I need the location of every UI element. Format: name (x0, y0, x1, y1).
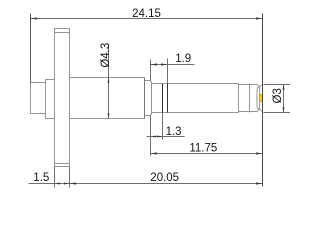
dim 24.15 left extension line (30, 14, 32, 83)
center contact (yellow) (260, 95, 263, 102)
phi3 dim line (283, 85, 285, 113)
arrows (31, 17, 285, 184)
svg-text:1.9: 1.9 (175, 53, 191, 65)
dim 1.3 right extension (groove bottom) (162, 113, 164, 140)
shaft step line 2 (249, 84, 251, 113)
neck top line (239, 84, 258, 86)
dim 24.15 line (31, 18, 263, 20)
dim 1.9 left extension (ring top) (150, 60, 152, 81)
dim 1.9 line (151, 64, 195, 66)
svg-text:11.75: 11.75 (189, 143, 217, 155)
arrow phi3 top (283, 85, 285, 90)
body cylinder rect (70, 78, 145, 119)
arrow 1.9 right (161, 63, 168, 65)
arrow 1.9 left (151, 63, 158, 65)
body right edge (144, 78, 146, 119)
dim 1.3 left extension (ring bottom) (150, 116, 152, 157)
shaft top line (152, 83, 239, 85)
arrow 1.3 right (157, 136, 163, 138)
ext flange right bottom (69, 167, 71, 188)
arrow 1.5 left (55, 183, 61, 185)
mid step section rect (46, 80, 55, 119)
groove line 1 (162, 84, 164, 113)
end cap chamfer cross bottom b (257, 108, 262, 111)
svg-text:1.3: 1.3 (166, 126, 182, 138)
arrow 1.3 left (151, 136, 157, 138)
arrow phi4.3 bottom (108, 113, 110, 118)
arrow 1.5 right (64, 183, 70, 185)
dim 1.3 line (147, 136, 185, 138)
groove line 2 (167, 84, 169, 113)
step ring (145, 81, 152, 116)
rear solder section rect (31, 83, 46, 114)
arrow 20.05 left (70, 182, 77, 184)
svg-text:20.05: 20.05 (150, 172, 179, 184)
svg-text:Ø3: Ø3 (272, 88, 284, 103)
arrow phi4.3 top (108, 78, 110, 83)
end cap chamfer cross top b (257, 85, 262, 88)
end cap inner line left (256, 88, 258, 109)
arrow 11.75 left (151, 152, 158, 154)
phi3 ext bottom (264, 112, 291, 114)
arrow 20.05 right (256, 182, 263, 184)
phi3 ext top (264, 84, 291, 86)
flange bottom chamfer line (55, 163, 70, 165)
arrow 24.15 right (256, 17, 263, 19)
end cap chamfer cross top a (257, 85, 260, 88)
dim 11.75 line (151, 153, 263, 155)
neck bottom line (239, 111, 258, 113)
shaft bottom line (152, 112, 239, 114)
end cap inner line right (259, 88, 261, 108)
dim 1.9 right extension (groove) (167, 59, 169, 84)
dim 20.05 / 1.5 shared line (29, 183, 263, 185)
arrow 11.75 right (256, 152, 263, 154)
svg-text:Ø4.3: Ø4.3 (100, 43, 112, 68)
shaft step line 1 (238, 84, 240, 113)
svg-text:24.15: 24.15 (132, 8, 161, 20)
flange rect (55, 29, 70, 167)
arrow 24.15 left (31, 17, 38, 19)
end cap chamfer cross bottom a (257, 108, 260, 111)
ext flange left bottom (54, 167, 56, 188)
dim phi4.3 line (108, 44, 110, 118)
right shared extension line (262, 14, 264, 187)
flange top chamfer line (55, 32, 70, 34)
arrow phi3 bottom (283, 107, 285, 112)
svg-text:1.5: 1.5 (33, 172, 49, 184)
